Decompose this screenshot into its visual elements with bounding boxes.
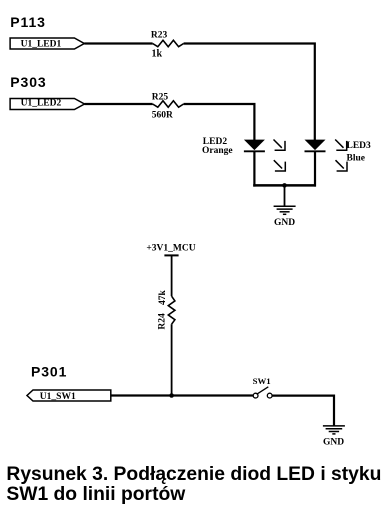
svg-text:Blue: Blue [347,154,365,164]
svg-text:Orange: Orange [202,146,233,156]
svg-text:1k: 1k [152,49,163,60]
svg-text:GND: GND [274,218,295,228]
svg-text:U1_LED2: U1_LED2 [21,98,62,108]
svg-text:R24: R24 [157,313,167,330]
svg-text:GND: GND [323,437,344,447]
svg-text:U1_SW1: U1_SW1 [40,392,76,402]
svg-text:P303: P303 [10,74,46,90]
svg-text:R23: R23 [151,31,168,41]
svg-text:SW1 do linii portów: SW1 do linii portów [6,484,186,505]
svg-text:R25: R25 [152,92,169,102]
svg-text:+3V1_MCU: +3V1_MCU [146,243,195,253]
svg-text:U1_LED1: U1_LED1 [21,40,62,50]
svg-text:SW1: SW1 [253,376,271,386]
svg-text:P113: P113 [10,14,46,30]
svg-text:Rysunek 3. Podłączenie diod LE: Rysunek 3. Podłączenie diod LED i styku [6,464,381,485]
svg-text:LED3: LED3 [347,141,372,151]
svg-text:P301: P301 [31,363,67,379]
svg-text:47k: 47k [158,290,168,306]
svg-text:560R: 560R [152,111,173,121]
